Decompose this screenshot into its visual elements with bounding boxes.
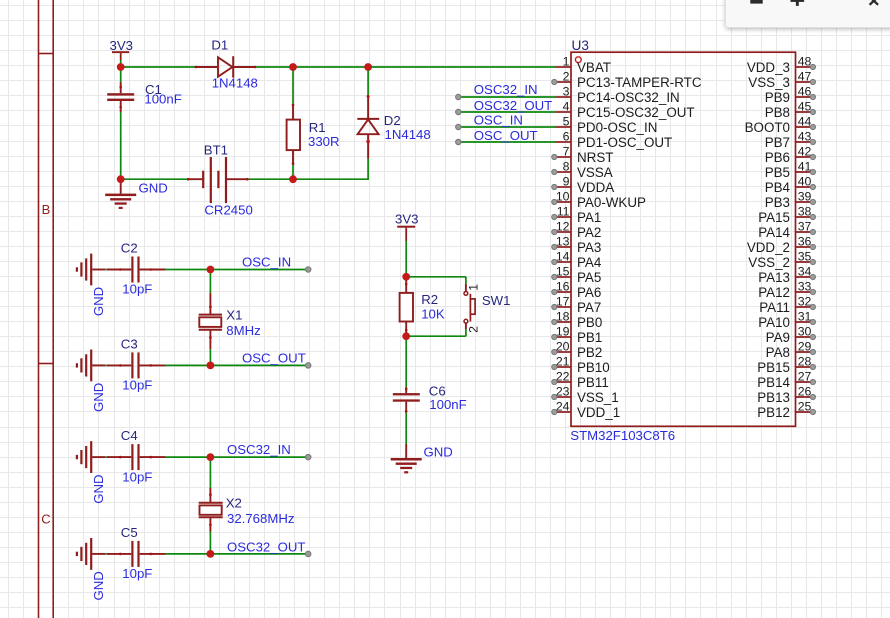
ground of C2 row <box>77 254 105 286</box>
U3 pin 35 number <box>798 250 812 264</box>
svg-text:OSC_IN: OSC_IN <box>242 254 291 269</box>
svg-text:47: 47 <box>798 70 812 84</box>
label R1 <box>309 120 326 135</box>
U3 pin 19 name PB1 <box>577 330 602 345</box>
U3 pin 35 name VSS_2 <box>748 255 790 270</box>
svg-text:PD1-OSC_OUT: PD1-OSC_OUT <box>577 135 672 150</box>
svg-text:38: 38 <box>798 205 812 219</box>
U3 pin 46 number <box>798 85 812 99</box>
svg-text:10pF: 10pF <box>122 566 152 581</box>
svg-text:D1: D1 <box>211 37 228 52</box>
U3 pin 14 name PA4 <box>577 255 602 270</box>
U3 pin 3 lead <box>556 96 572 98</box>
svg-text:PB4: PB4 <box>765 180 791 195</box>
label GND rotated of C4 row <box>91 474 106 503</box>
net label OSC_IN <box>242 254 291 269</box>
svg-text:OSC32_OUT: OSC32_OUT <box>227 540 305 555</box>
svg-text:VDD_3: VDD_3 <box>747 60 790 75</box>
wire OSC32_IN row <box>105 456 308 458</box>
capacitor C3 <box>107 352 166 378</box>
svg-text:46: 46 <box>798 85 812 99</box>
battery BT1 <box>187 157 249 203</box>
U3 pin 47 name VSS_3 <box>748 75 790 90</box>
U3 pin 23 number <box>556 385 570 399</box>
svg-text:45: 45 <box>798 100 812 114</box>
U3 pin 17 lead <box>552 304 571 309</box>
label 10K <box>421 306 445 321</box>
svg-text:PA15: PA15 <box>758 210 790 225</box>
crystal X2 <box>199 488 223 532</box>
diode D2 <box>357 95 379 159</box>
U3 pin 37 lead <box>796 229 816 234</box>
U3 pin 30 number <box>798 325 812 339</box>
U3 pin 42 lead <box>796 154 816 159</box>
svg-text:PB10: PB10 <box>577 360 610 375</box>
U3 pin 42 name PB6 <box>765 150 790 165</box>
wire to U3 pin 4 <box>458 111 555 113</box>
U3 pin 39 name PB3 <box>765 195 790 210</box>
label R2 <box>421 292 438 307</box>
U3 pin 20 lead <box>552 349 571 354</box>
svg-text:35: 35 <box>798 250 812 264</box>
svg-text:33: 33 <box>798 280 812 294</box>
svg-text:18: 18 <box>556 310 570 324</box>
U3 pin 34 lead <box>796 274 816 279</box>
label D2 <box>384 113 401 128</box>
U3 pin 4 name PC15-OSC32_OUT <box>577 105 695 120</box>
svg-text:21: 21 <box>556 355 570 369</box>
U3 pin 27 name PB14 <box>757 375 790 390</box>
wire X1 bottom <box>209 349 211 365</box>
U3 pin 31 number <box>798 310 812 324</box>
svg-text:2: 2 <box>466 326 480 333</box>
net label OSC32_OUT <box>227 540 305 555</box>
svg-text:D2: D2 <box>384 113 401 128</box>
svg-text:OSC_OUT: OSC_OUT <box>474 128 538 143</box>
svg-text:39: 39 <box>798 190 812 204</box>
svg-text:37: 37 <box>798 220 812 234</box>
svg-text:PA7: PA7 <box>577 300 601 315</box>
svg-text:SW1: SW1 <box>482 293 511 308</box>
U3 pin 39 number <box>798 190 812 204</box>
U3 pin 31 lead <box>796 319 816 324</box>
U3 pin 11 number <box>557 205 570 219</box>
svg-text:PA14: PA14 <box>758 225 790 240</box>
power flag 3V3 (top-left) <box>110 38 133 60</box>
svg-text:GND: GND <box>91 571 106 600</box>
ground symbol middle <box>391 444 422 473</box>
U3 pin 19 number <box>556 325 570 339</box>
U3 pin 44 number <box>798 115 812 129</box>
svg-text:1: 1 <box>563 55 570 69</box>
wire R1 bottom <box>292 164 294 179</box>
U3 pin 44 name BOOT0 <box>745 120 790 135</box>
svg-text:VBAT: VBAT <box>577 60 611 75</box>
U3 pin 13 name PA3 <box>577 240 601 255</box>
wire X2 bottom <box>209 532 211 554</box>
label SW1 <box>482 293 511 308</box>
svg-text:36: 36 <box>798 235 812 249</box>
U3 pin 11 lead <box>552 214 571 219</box>
ground of C3 row <box>77 350 105 382</box>
label GND rotated of C5 row <box>91 571 106 600</box>
U3 pin 33 number <box>798 280 812 294</box>
U3 pin 16 name PA6 <box>577 285 601 300</box>
U3 pin 46 lead <box>796 94 816 99</box>
svg-text:VSS_2: VSS_2 <box>748 255 790 270</box>
U3 pin 37 number <box>798 220 812 234</box>
svg-text:C2: C2 <box>121 241 138 256</box>
label X1 <box>226 307 242 322</box>
U3 pin 12 lead <box>552 229 571 234</box>
svg-text:PB9: PB9 <box>765 90 790 105</box>
U3 pin 15 name PA5 <box>577 270 601 285</box>
svg-text:VSS_1: VSS_1 <box>577 390 619 405</box>
svg-text:PA0-WKUP: PA0-WKUP <box>577 195 646 210</box>
svg-text:VDDA: VDDA <box>577 180 614 195</box>
U3 pin 38 number <box>798 205 812 219</box>
svg-text:PB13: PB13 <box>757 390 790 405</box>
U3 pin 46 name PB9 <box>765 90 790 105</box>
svg-text:PB11: PB11 <box>577 375 609 390</box>
svg-text:3V3: 3V3 <box>110 38 133 53</box>
U3 pin 42 number <box>798 145 812 159</box>
wire D2 bottom <box>367 159 369 180</box>
U3 pin 11 name PA1 <box>577 210 601 225</box>
U3 pin 18 lead <box>552 319 571 324</box>
U3 pin-1 marker circle <box>575 57 581 63</box>
svg-text:10: 10 <box>556 190 570 204</box>
U3 pin 27 number <box>798 370 812 384</box>
svg-text:PB15: PB15 <box>757 360 790 375</box>
U3 pin 26 number <box>798 385 812 399</box>
net label OSC_OUT <box>242 351 306 366</box>
label GND rotated of C3 row <box>91 383 106 412</box>
svg-text:4: 4 <box>563 100 570 114</box>
U3 pin 29 lead <box>796 349 816 354</box>
U3 pin 9 number <box>563 175 570 189</box>
U3 pin 35 lead <box>796 259 816 264</box>
toolbar minus icon <box>750 0 762 4</box>
net label OSC32_OUT at U3 <box>474 98 552 113</box>
U3 pin 25 name PB12 <box>757 405 790 420</box>
svg-text:17: 17 <box>556 295 570 309</box>
svg-text:9: 9 <box>563 175 570 189</box>
U3 pin 25 lead <box>796 409 816 414</box>
label C6 <box>429 383 446 398</box>
label 10pF of C3 <box>122 378 152 393</box>
U3 pin 19 lead <box>552 334 571 339</box>
capacitor C1 <box>107 82 134 112</box>
U3 pin 39 lead <box>796 199 816 204</box>
open wire end dots <box>306 94 461 556</box>
svg-text:12: 12 <box>556 220 570 234</box>
svg-text:20: 20 <box>556 340 570 354</box>
capacitor C2 <box>107 257 166 283</box>
svg-text:23: 23 <box>556 385 570 399</box>
U3 pin 3 number <box>563 85 570 99</box>
U3 pin 4 number <box>563 100 570 114</box>
crystal X1 <box>199 293 222 349</box>
svg-text:27: 27 <box>798 370 812 384</box>
svg-text:STM32F103C8T6: STM32F103C8T6 <box>570 428 675 443</box>
svg-text:C5: C5 <box>121 525 138 540</box>
label STM32F103C8T6 <box>570 428 675 443</box>
wire junction dots <box>117 63 410 558</box>
svg-text:PA3: PA3 <box>577 240 601 255</box>
U3 pin 12 name PA2 <box>577 225 601 240</box>
label 1N4148 of D1 <box>212 75 258 90</box>
label 8MHz <box>226 323 260 338</box>
U3 pin 40 number <box>798 175 812 189</box>
U3 pin 40 name PB4 <box>765 180 791 195</box>
U3 pin 20 name PB2 <box>577 345 602 360</box>
label 32.768MHz <box>227 511 294 526</box>
U3 pin 47 lead <box>796 79 816 84</box>
U3 pin 20 number <box>556 340 570 354</box>
svg-text:15: 15 <box>556 265 570 279</box>
svg-text:CR2450: CR2450 <box>204 202 252 217</box>
svg-text:PA8: PA8 <box>766 345 790 360</box>
wire SW1 bottom to R2 node <box>406 329 466 336</box>
svg-text:PB3: PB3 <box>765 195 790 210</box>
U3 pin 9 name VDDA <box>577 180 614 195</box>
svg-text:GND: GND <box>424 445 453 460</box>
svg-text:PB0: PB0 <box>577 315 602 330</box>
svg-text:PA11: PA11 <box>759 300 790 315</box>
svg-text:32.768MHz: 32.768MHz <box>227 511 294 526</box>
svg-text:GND: GND <box>91 474 106 503</box>
svg-text:30: 30 <box>798 325 812 339</box>
label 10pF of C5 <box>122 566 152 581</box>
U3 pin 12 number <box>556 220 570 234</box>
U3 pin 17 name PA7 <box>577 300 601 315</box>
svg-text:PA13: PA13 <box>758 270 790 285</box>
toolbar plus icon <box>791 0 805 6</box>
U3 pin 21 name PB10 <box>577 360 610 375</box>
U3 pin 8 number <box>563 160 570 174</box>
svg-text:6: 6 <box>563 130 570 144</box>
U3 pin 10 number <box>556 190 570 204</box>
U3 pin 2 number <box>563 70 570 84</box>
U3 pin 48 number <box>798 55 812 69</box>
svg-text:19: 19 <box>556 325 570 339</box>
U3 pin 33 lead <box>796 289 816 294</box>
U3 pin 28 number <box>798 355 812 369</box>
svg-text:OSC32_OUT: OSC32_OUT <box>474 98 552 113</box>
U3 pin 36 name VDD_2 <box>747 240 790 255</box>
U3 pin 36 number <box>798 235 812 249</box>
U3 pin 43 lead <box>796 139 816 144</box>
U3 pin 30 name PA9 <box>766 330 790 345</box>
svg-text:GND: GND <box>139 181 168 196</box>
U3 pin 15 number <box>556 265 570 279</box>
net label OSC32_IN at U3 <box>474 82 538 97</box>
svg-text:10K: 10K <box>421 306 445 321</box>
U3 pin 14 lead <box>552 259 571 264</box>
U3 pin 43 name PB7 <box>765 135 790 150</box>
svg-text:BOOT0: BOOT0 <box>745 120 790 135</box>
net label OSC_IN at U3 <box>474 113 523 128</box>
U3 pin 5 number <box>563 115 570 129</box>
svg-text:330R: 330R <box>308 134 340 149</box>
svg-text:43: 43 <box>798 130 812 144</box>
U3 pin 24 lead <box>552 409 571 414</box>
svg-text:NRST: NRST <box>577 150 613 165</box>
U3 pin 24 number <box>556 400 570 414</box>
label BT1 <box>204 143 228 158</box>
wire C6 to GND <box>405 412 407 444</box>
svg-text:44: 44 <box>798 115 812 129</box>
svg-text:PA12: PA12 <box>758 285 790 300</box>
U3 pin 6 name PD1-OSC_OUT <box>577 135 672 150</box>
label C4 <box>121 428 138 443</box>
U3 pin 48 name VDD_3 <box>747 60 790 75</box>
U3 pin 8 lead <box>552 169 571 174</box>
wire C1 bottom <box>120 112 122 179</box>
svg-text:1N4148: 1N4148 <box>385 127 431 142</box>
U3 pin 5 lead <box>556 126 572 128</box>
svg-text:C4: C4 <box>121 428 138 443</box>
svg-text:PB6: PB6 <box>765 150 790 165</box>
U3 pin 28 lead <box>796 364 816 369</box>
svg-text:2: 2 <box>563 70 570 84</box>
U3 pin 29 name PA8 <box>766 345 790 360</box>
U3 pin 5 name PD0-OSC_IN <box>577 120 657 135</box>
svg-text:31: 31 <box>798 310 812 324</box>
svg-text:3: 3 <box>563 85 570 99</box>
svg-text:24: 24 <box>556 400 570 414</box>
label 330R <box>308 134 340 149</box>
U3 pin 17 number <box>556 295 570 309</box>
svg-text:PA9: PA9 <box>766 330 790 345</box>
wire GND net horizontal <box>121 178 369 180</box>
svg-text:3V3: 3V3 <box>395 211 418 226</box>
svg-text:28: 28 <box>798 355 812 369</box>
U3 pin 2 name PC13-TAMPER-RTC <box>577 75 702 90</box>
U3 pin 32 name PA11 <box>759 300 790 315</box>
U3 pin 27 lead <box>796 379 816 384</box>
U3 pin 26 name PB13 <box>757 390 790 405</box>
U3 pin 32 number <box>798 295 812 309</box>
switch SW1 <box>464 284 475 329</box>
svg-text:16: 16 <box>556 280 570 294</box>
U3 pin 1 lead <box>556 66 572 68</box>
op-amp U3 body (STM32 symbol rectangle) <box>571 52 796 426</box>
svg-text:PA5: PA5 <box>577 270 601 285</box>
svg-text:25: 25 <box>798 400 812 414</box>
wire R2 bottom to C6 <box>405 336 407 387</box>
U3 pin 22 lead <box>552 379 571 384</box>
U3 pin 38 lead <box>796 214 816 219</box>
svg-text:26: 26 <box>798 385 812 399</box>
svg-text:100nF: 100nF <box>429 397 466 412</box>
svg-text:1: 1 <box>466 284 480 291</box>
U3 pin 41 lead <box>796 169 816 174</box>
U3 pin 26 lead <box>796 394 816 399</box>
U3 pin 16 lead <box>552 289 571 294</box>
svg-text:C: C <box>41 512 50 527</box>
svg-text:8MHz: 8MHz <box>226 323 260 338</box>
label C5 <box>121 525 138 540</box>
svg-text:PB8: PB8 <box>765 105 790 120</box>
label 10pF of C4 <box>122 469 152 484</box>
U3 pin 44 lead <box>796 124 816 129</box>
svg-text:40: 40 <box>798 175 812 189</box>
svg-text:GND: GND <box>91 287 106 316</box>
U3 pin 29 number <box>798 340 812 354</box>
U3 pin 1 name VBAT <box>577 60 611 75</box>
U3 pin 18 name PB0 <box>577 315 602 330</box>
label SW1 pin 1 <box>466 284 480 291</box>
wire R1 top <box>292 67 294 104</box>
wire C1 top <box>120 67 122 82</box>
net label OSC_OUT at U3 <box>474 128 538 143</box>
label 10pF of C2 <box>122 282 152 297</box>
svg-text:11: 11 <box>557 205 570 219</box>
U3 pin 21 lead <box>552 364 571 369</box>
svg-text:BT1: BT1 <box>204 143 228 158</box>
wire OSC_OUT row <box>105 364 308 366</box>
U3 pin 47 number <box>798 70 812 84</box>
label C3 <box>121 336 138 351</box>
wire to U3 pin 6 <box>458 141 555 143</box>
U3 pin 23 name VSS_1 <box>577 390 619 405</box>
power flag 3V3 (middle) <box>395 211 418 241</box>
U3 pin 37 name PA14 <box>758 225 790 240</box>
U3 pin 13 lead <box>552 244 571 249</box>
capacitor C6 <box>393 387 420 413</box>
svg-text:PA6: PA6 <box>577 285 601 300</box>
svg-text:10pF: 10pF <box>122 282 152 297</box>
svg-text:48: 48 <box>798 55 812 69</box>
toolbar close icon <box>870 0 879 5</box>
svg-text:PB2: PB2 <box>577 345 602 360</box>
U3 pin 41 name PB5 <box>765 165 790 180</box>
U3 pin 45 lead <box>796 109 816 114</box>
svg-text:X1: X1 <box>226 307 242 322</box>
U3 pin 6 number <box>563 130 570 144</box>
svg-text:32: 32 <box>798 295 812 309</box>
U3 pin 22 number <box>556 370 570 384</box>
svg-text:100nF: 100nF <box>144 92 181 107</box>
U3 pin 7 name NRST <box>577 150 613 165</box>
svg-text:OSC_OUT: OSC_OUT <box>242 351 306 366</box>
label GND rotated of C2 row <box>91 287 106 316</box>
U3 pin 1 number <box>563 55 570 69</box>
U3 pin 30 lead <box>796 334 816 339</box>
U3 pin 34 number <box>798 265 812 279</box>
svg-text:13: 13 <box>556 235 570 249</box>
svg-text:C3: C3 <box>121 336 138 351</box>
U3 pin 25 number <box>798 400 812 414</box>
svg-text:41: 41 <box>798 160 812 174</box>
U3 pin 10 name PA0-WKUP <box>577 195 646 210</box>
label GND middle <box>424 445 453 460</box>
U3 pin 13 number <box>556 235 570 249</box>
label 100nF of C6 <box>429 397 466 412</box>
svg-text:U3: U3 <box>572 38 589 53</box>
label CR2450 <box>204 202 252 217</box>
wire to U3 pin 3 <box>458 96 555 98</box>
label 100nF of C1 <box>144 92 181 107</box>
svg-text:29: 29 <box>798 340 812 354</box>
svg-text:1N4148: 1N4148 <box>212 75 258 90</box>
svg-text:R2: R2 <box>421 292 438 307</box>
wire R2 top node to SW1 <box>406 277 466 284</box>
resistor R2 <box>400 277 413 336</box>
svg-text:PA2: PA2 <box>577 225 601 240</box>
